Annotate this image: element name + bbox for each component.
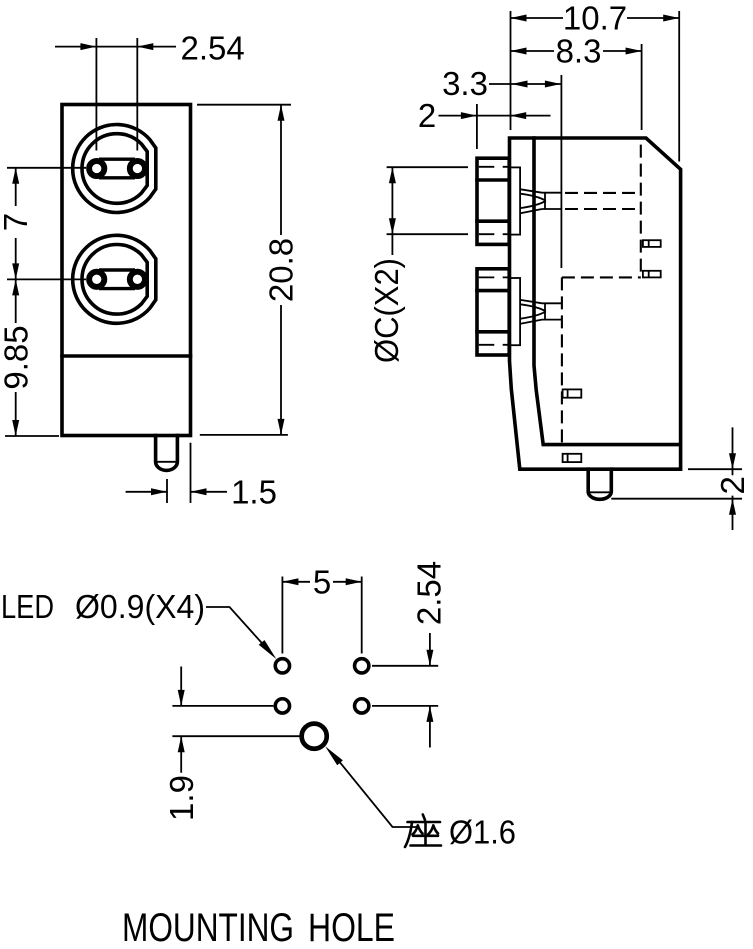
svg-text:MOUNTING: MOUNTING bbox=[122, 906, 294, 949]
svg-text:Ø0.9(X4): Ø0.9(X4) bbox=[75, 588, 205, 625]
dimension 2 bottom line bbox=[732, 427, 734, 530]
svg-text:2: 2 bbox=[418, 97, 436, 134]
dimension C arrows bbox=[389, 167, 396, 183]
mounting hole small circle top-left bbox=[275, 659, 289, 673]
svg-text:ØC(X2): ØC(X2) bbox=[368, 258, 405, 363]
dimension 8.3 arrows bbox=[511, 48, 527, 55]
mounting hole small circle top-right bbox=[355, 659, 369, 673]
label seat leader arrow bbox=[325, 746, 343, 765]
lead rect right 2 bbox=[643, 271, 661, 278]
dimension 10.7 arrows bbox=[511, 15, 527, 22]
dimension 2.54 right line bbox=[429, 633, 431, 748]
hidden line barrel 1 bore right bbox=[565, 193, 641, 209]
barrel 2 divider lines bbox=[477, 291, 509, 332]
svg-text:2.54: 2.54 bbox=[410, 561, 447, 625]
mounting hole small circle bottom-left bbox=[275, 699, 289, 713]
svg-text:7: 7 bbox=[0, 213, 34, 231]
svg-text:5: 5 bbox=[313, 563, 331, 600]
dimension 1.5 extension lines bbox=[167, 443, 191, 503]
label seat leader bbox=[338, 760, 419, 827]
svg-text:2: 2 bbox=[714, 476, 751, 494]
front view body outline bbox=[62, 105, 191, 436]
svg-text:Ø1.6: Ø1.6 bbox=[449, 814, 516, 851]
dimension 9.85 line bbox=[15, 279, 17, 436]
svg-text:20.8: 20.8 bbox=[263, 238, 300, 302]
LED cell 2 outer contour bbox=[73, 235, 156, 323]
barrel 2 outer rect bbox=[477, 269, 509, 355]
LED cell 1 left lead ring bbox=[89, 161, 104, 176]
LED cell 1 inner contour bbox=[82, 134, 147, 204]
hidden line right vertical bbox=[640, 145, 642, 278]
LED cell 2 lead bar bbox=[99, 270, 135, 289]
dimension 9.85 bottom extension bbox=[5, 435, 59, 437]
side view inner wall bbox=[534, 138, 679, 445]
svg-text:1.9: 1.9 bbox=[163, 775, 200, 821]
dimension 1.5 arrows bbox=[151, 488, 167, 495]
barrel 1 nib bbox=[520, 189, 562, 213]
dimension 3.3 line bbox=[489, 83, 561, 85]
dimension 2 extension line bbox=[476, 104, 478, 149]
dimension 10.7 line bbox=[511, 17, 680, 19]
LED cell 2 right lead ring bbox=[130, 272, 145, 287]
front view bottom peg bbox=[156, 436, 178, 471]
dimension 1.5 line bbox=[126, 491, 227, 493]
dimension 8.3 line bbox=[511, 50, 642, 52]
side view internal edge line bbox=[560, 75, 562, 268]
hidden line horizontal mid bbox=[562, 276, 641, 278]
svg-text:LED: LED bbox=[1, 588, 54, 625]
dimension 3.3 arrows bbox=[512, 81, 528, 88]
dimension 1.9 arrows bbox=[178, 690, 185, 706]
dimension 10.7 extension lines bbox=[511, 11, 680, 162]
dimension 2.54 extension lines bbox=[96, 38, 137, 151]
dimension 7 leader lines bbox=[7, 168, 86, 280]
side view peg chord bbox=[588, 491, 611, 493]
dimension C extension lines bbox=[387, 167, 468, 234]
mounting hole big circle bbox=[302, 724, 327, 749]
LED cell 2 inner contour bbox=[82, 244, 147, 314]
dimension 7 arrows bbox=[12, 168, 19, 184]
dimension 1.9 line bbox=[180, 667, 182, 773]
svg-text:9.85: 9.85 bbox=[0, 325, 34, 389]
dimension 5 extension lines bbox=[282, 577, 361, 654]
dimension 2 arrows bbox=[461, 112, 477, 119]
side view body outline bbox=[510, 138, 681, 469]
barrel 1 back plate bbox=[509, 167, 520, 234]
hidden line left vertical bbox=[561, 277, 563, 443]
label seat glyph (CJK drawn) bbox=[405, 815, 441, 848]
svg-text:10.7: 10.7 bbox=[563, 0, 627, 37]
dimension 5 arrows bbox=[282, 578, 298, 585]
barrel 1 outer rect bbox=[477, 158, 509, 244]
LED cell 1 outer contour bbox=[73, 125, 156, 213]
barrel 1 divider lines bbox=[477, 180, 509, 221]
svg-text:HOLE: HOLE bbox=[308, 906, 395, 949]
dimension 20.8 extension lines bbox=[197, 105, 291, 435]
LED cell 2 left lead ring bbox=[89, 272, 104, 287]
barrel 2 back plate bbox=[509, 278, 520, 345]
dimension 2 line bbox=[439, 115, 551, 117]
dimension 20.8 line bbox=[280, 105, 282, 435]
dimension 8.3 extension line bbox=[641, 44, 643, 130]
dimension 9.85 arrows bbox=[12, 279, 19, 295]
svg-text:3.3: 3.3 bbox=[442, 65, 488, 102]
lead rect right 1 bbox=[643, 240, 661, 247]
side view bottom peg bbox=[588, 469, 611, 499]
dimension 7 line bbox=[15, 168, 17, 280]
front view divider line bbox=[62, 354, 191, 358]
LED cell 1 right lead ring bbox=[130, 161, 145, 176]
svg-text:1.5: 1.5 bbox=[231, 474, 277, 511]
dimension 2 bottom arrows bbox=[729, 453, 736, 469]
dimension 5 line bbox=[282, 581, 361, 583]
dimension 2.54 right arrows bbox=[426, 650, 433, 666]
barrel 2 bore lines bbox=[479, 277, 509, 344]
svg-text:2.54: 2.54 bbox=[180, 30, 244, 67]
label LED holes leader bbox=[206, 607, 262, 643]
dimension 1.9 extension lines bbox=[172, 706, 301, 736]
dimension 2.54 line bbox=[55, 46, 176, 48]
dimension 2.54 arrows bbox=[80, 43, 96, 50]
label LED holes leader arrow bbox=[259, 640, 277, 659]
dimension 2.54 right extension lines bbox=[372, 666, 438, 706]
barrel 2 nib bbox=[520, 300, 561, 324]
dimension C line bbox=[391, 167, 393, 255]
barrel 1 bore lines bbox=[479, 167, 509, 234]
dimension 2 bottom extension lines bbox=[611, 469, 742, 499]
dimension 20.8 arrows bbox=[278, 105, 285, 121]
LED cell 1 lead bar bbox=[99, 159, 135, 178]
mounting hole small circle bottom-right bbox=[355, 699, 369, 713]
svg-text:8.3: 8.3 bbox=[556, 33, 602, 70]
front view peg chord bbox=[156, 461, 178, 463]
lead rect bottom 1 bbox=[563, 389, 582, 397]
lead rect bottom 2 bbox=[563, 454, 582, 462]
